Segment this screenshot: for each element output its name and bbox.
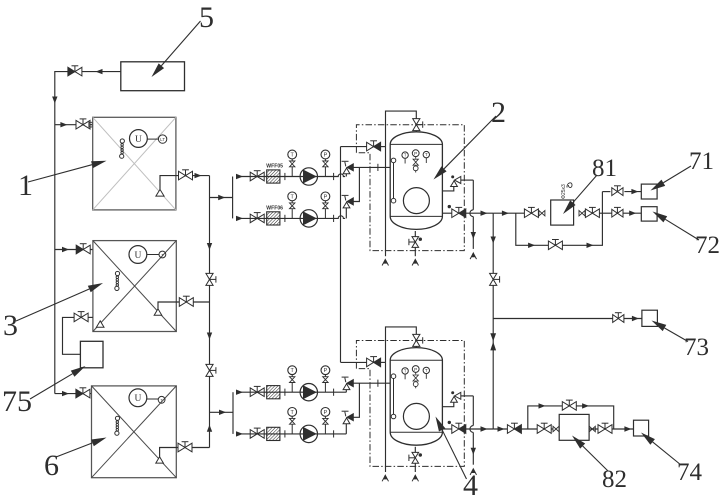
wire drain to vent 2 bbox=[414, 247, 416, 256]
gauge T pump row 1 bbox=[291, 167, 293, 177]
svg-text:U: U bbox=[135, 135, 142, 145]
wire row2 riser to check valve 4B bbox=[345, 424, 347, 434]
filter pump row 1 bbox=[267, 170, 280, 183]
gauge P pump row 1 bbox=[324, 167, 326, 177]
flow arrow up on suction main bottom bbox=[207, 425, 212, 432]
heat meter box 82 bbox=[559, 414, 589, 440]
flow arrow into box3 bbox=[62, 247, 69, 252]
vent below enclosure left 2 bbox=[382, 260, 385, 266]
flange pump row 1 bbox=[284, 173, 286, 180]
check valve before meter 82 bbox=[507, 425, 514, 434]
flow arrow down on supply riser bbox=[52, 97, 57, 104]
flow arrow down distribution main bbox=[491, 237, 496, 244]
valve on expansion-tank line bbox=[68, 67, 75, 76]
wire tank 2 safety tap bbox=[442, 187, 453, 191]
wire after meter 82 bbox=[589, 428, 633, 430]
flow arrow down on suction main middle bbox=[207, 333, 212, 340]
pump P3 bbox=[300, 384, 317, 401]
wire branch to upper pump header bbox=[210, 197, 233, 199]
valve on box75 line bbox=[74, 313, 81, 322]
flange on tank feed 4 bbox=[377, 380, 379, 387]
drain valve tank 2 bbox=[412, 237, 419, 242]
enclosure boundary tank 2 bbox=[356, 125, 464, 251]
box3 diagonal braces bbox=[93, 241, 176, 332]
filter pump row 4 bbox=[267, 427, 280, 440]
wire box1 inlet bbox=[55, 124, 93, 126]
tank 4 gauge 3 bbox=[423, 367, 429, 373]
wire interconnect riser bbox=[340, 147, 342, 363]
drain line below top loop 4 bbox=[385, 362, 387, 472]
svg-text:82: 82 bbox=[602, 466, 627, 493]
label 1 leader bbox=[28, 165, 92, 182]
box6 small gauge bbox=[158, 396, 165, 403]
svg-text:T: T bbox=[404, 153, 407, 158]
valve to user 71 bbox=[612, 188, 618, 196]
tank 2 gauge 1 bbox=[402, 152, 408, 158]
tank 2 gauge 3 bbox=[423, 151, 429, 157]
wire user riser 81 bbox=[601, 192, 603, 214]
wire pump row 4 bbox=[236, 433, 346, 435]
svg-text:P: P bbox=[414, 151, 417, 156]
wire to user 73 bbox=[493, 318, 642, 320]
meter 81 curl bbox=[567, 183, 572, 188]
flow arrow on outlet 2 bbox=[481, 211, 488, 216]
svg-text:P: P bbox=[324, 153, 328, 159]
svg-text:Φ25x3: Φ25x3 bbox=[561, 184, 567, 199]
valve on box6 outlet bbox=[178, 443, 185, 452]
tank box 1 bbox=[93, 117, 176, 210]
flow arrow into pump row 2 bbox=[236, 216, 243, 221]
wire drain to vent 4 bbox=[414, 463, 416, 472]
flow arrow to user 73 bbox=[632, 316, 639, 321]
wire user 71 branch bbox=[602, 191, 610, 193]
svg-text:LT: LT bbox=[160, 137, 165, 142]
union before meter 81 bbox=[539, 211, 542, 216]
box3 drain triangle left bbox=[96, 321, 104, 327]
flow arrow into pump row 1 bbox=[236, 174, 243, 179]
filter pump row 3 bbox=[267, 386, 280, 399]
box6 drain triangle bbox=[156, 457, 164, 463]
tank 2 manhole bbox=[403, 188, 429, 214]
filter pump row 2 bbox=[267, 212, 280, 225]
check valve on tank 2 top loop bbox=[367, 142, 374, 151]
drain line below top loop 2 bbox=[385, 147, 387, 257]
tank 4 vessel shell bbox=[390, 348, 442, 446]
valve on tank 4 top pipe bbox=[413, 334, 420, 340]
vent below enclosure left 4 bbox=[382, 475, 385, 481]
box1 level sensor bbox=[120, 139, 124, 143]
tank 4 manhole bbox=[403, 403, 429, 429]
wire into tank 2 top bbox=[415, 131, 417, 133]
svg-text:74: 74 bbox=[677, 459, 703, 486]
valve after meter 81 bbox=[585, 209, 592, 218]
flange pump row 2 bbox=[284, 215, 286, 222]
label 5 leader bbox=[161, 21, 200, 66]
box1 diagonal brace light bbox=[93, 117, 176, 210]
flange after pump 3 bbox=[333, 389, 335, 396]
wire pump row 1 bbox=[236, 174, 345, 177]
label 82 leader bbox=[583, 446, 608, 471]
valve on suction main lower bbox=[206, 364, 213, 370]
valve to user 72 bbox=[612, 209, 618, 217]
svg-text:WFF06: WFF06 bbox=[266, 205, 283, 211]
flow arrow on upper pump branch bbox=[218, 195, 225, 200]
flange pump row 4 bbox=[284, 430, 286, 437]
wire tank 4 top loop bbox=[381, 361, 386, 363]
union after meter 81 bbox=[579, 211, 582, 216]
flow arrow down vent riser 2 bbox=[471, 232, 476, 239]
gauge P pump row 3 bbox=[324, 383, 326, 393]
svg-text:75: 75 bbox=[2, 385, 32, 418]
wire tank 2 top loop bbox=[381, 146, 386, 148]
flange pump row 3 bbox=[284, 389, 286, 396]
wire suction main vertical bbox=[209, 176, 211, 448]
svg-text:4: 4 bbox=[463, 469, 478, 500]
safety valve tank 4 bbox=[451, 397, 458, 403]
wire check 2A to tank side bbox=[353, 166, 390, 168]
valve to user 73 bbox=[613, 315, 619, 323]
wire pump row 2 bbox=[236, 216, 345, 219]
gauge T pump row 3 bbox=[291, 383, 293, 393]
svg-text:P: P bbox=[414, 367, 417, 372]
svg-text:3: 3 bbox=[3, 309, 18, 342]
tank 4 gauge 2 bbox=[412, 366, 419, 373]
outlet valve tank 2 bbox=[452, 209, 459, 218]
vent at safety riser 4 bbox=[470, 469, 473, 475]
vent below tank 4 drain bbox=[412, 475, 415, 481]
label 72 leader bbox=[665, 219, 699, 240]
wire box3 to box75 bbox=[87, 316, 93, 318]
valve pump row 3 suction bbox=[250, 388, 257, 397]
crossing hop of vent riser over outlet 4 bbox=[470, 426, 473, 433]
flow arrow bypass 82 right bbox=[582, 403, 589, 408]
svg-text:P: P bbox=[324, 410, 328, 416]
svg-text:T: T bbox=[425, 152, 428, 157]
union after meter 82 bbox=[589, 426, 592, 431]
wire outlet to header 2 bbox=[466, 212, 493, 214]
flow arrow before check 82 bbox=[498, 426, 505, 431]
svg-text:71: 71 bbox=[689, 148, 714, 175]
wire main supply riser bbox=[55, 72, 121, 394]
wire safety to vent riser 4 bbox=[461, 395, 474, 397]
flow arrow on bypass 81 right bbox=[587, 243, 594, 248]
gauge T pump row 2 bbox=[291, 209, 293, 219]
label 75 leader bbox=[30, 374, 73, 399]
svg-text:73: 73 bbox=[684, 334, 709, 361]
label 73 leader bbox=[665, 328, 688, 342]
tank 4 relief fitting bbox=[413, 375, 418, 378]
vent at safety riser 2 bbox=[470, 253, 473, 259]
wire box3 outlet bbox=[158, 302, 210, 309]
user box 72 bbox=[641, 207, 657, 221]
box6 level sensor bbox=[115, 416, 119, 420]
flow arrow into box6 bbox=[62, 391, 69, 396]
label 71 leader bbox=[663, 166, 691, 183]
svg-text:T: T bbox=[425, 368, 428, 373]
tank 2 shoulder weld line bbox=[390, 143, 442, 145]
box1 gauge link bbox=[147, 138, 158, 140]
tank 2 sight glass bbox=[391, 158, 396, 163]
valve on bypass 81 bbox=[548, 241, 555, 250]
valve on distribution main bbox=[490, 273, 497, 279]
box6 diagonal braces bbox=[92, 386, 177, 478]
tank 2 gauge 2 bbox=[412, 150, 419, 157]
tank 4 gauge 1 bbox=[402, 368, 408, 374]
box3 level sensor bbox=[115, 271, 119, 275]
valve before meter 81 bbox=[524, 209, 531, 218]
wire box6 inlet bbox=[55, 393, 92, 395]
box1 drain triangle bbox=[156, 189, 164, 196]
box1 small gauge LT bbox=[158, 135, 166, 143]
flow arrow on lower pump branch bbox=[219, 410, 226, 415]
dot at drain valve 4 bbox=[419, 453, 422, 456]
wire tank 4 safety tap bbox=[442, 403, 453, 407]
svg-text:P: P bbox=[324, 194, 328, 200]
svg-text:U: U bbox=[134, 251, 141, 261]
box3 gauge link bbox=[147, 254, 159, 256]
heat meter box 81 bbox=[551, 200, 574, 225]
flow arrow to user 71 bbox=[631, 189, 638, 194]
svg-text:U: U bbox=[134, 394, 141, 404]
wire meter 81 bypass bbox=[516, 213, 603, 245]
svg-text:P: P bbox=[324, 368, 328, 374]
wire tank 4 bottom drain bbox=[414, 447, 416, 453]
label 6 leader bbox=[56, 443, 93, 457]
wire to user 72 bbox=[610, 212, 641, 214]
box6 controller circle U bbox=[129, 389, 147, 407]
drain valve tank 4 bbox=[412, 452, 419, 457]
user box 73 bbox=[642, 310, 658, 326]
wire to heat meter 81 bbox=[493, 212, 524, 214]
valve on bypass 82 bbox=[562, 402, 569, 411]
box3 drain triangle right bbox=[154, 309, 162, 315]
dot at drain valve 2 bbox=[419, 238, 422, 241]
svg-text:2: 2 bbox=[491, 96, 506, 129]
check valve 2A angle bbox=[343, 168, 350, 174]
check valve on tank 4 top loop bbox=[367, 358, 374, 367]
tank 2 relief fitting bbox=[413, 159, 418, 162]
valve on box1 outlet bbox=[179, 171, 186, 180]
outlet valve tank 4 bbox=[452, 425, 459, 434]
wire branch to lower pump header bbox=[210, 411, 234, 413]
valve on suction main upper bbox=[206, 273, 213, 279]
user box 74 bbox=[634, 420, 649, 436]
wire meter 82 bypass bbox=[528, 406, 614, 429]
wire check 4B joins feed bbox=[353, 383, 359, 417]
flow arrow into box1 bbox=[60, 122, 67, 127]
flow arrow down on suction main upper bbox=[207, 243, 212, 250]
valve on box3 outlet bbox=[179, 298, 186, 307]
wire check 2B joins feed bbox=[353, 167, 359, 201]
wire upper pump header bbox=[232, 177, 234, 219]
label 4 leader bbox=[442, 430, 466, 479]
flow arrow into pump row 3 bbox=[236, 390, 243, 395]
wire box6 outlet bbox=[160, 448, 210, 457]
wire tank 2 bottom drain bbox=[414, 231, 416, 237]
tank box 3 bbox=[93, 241, 176, 332]
tank 4 shoulder weld line bbox=[390, 359, 442, 361]
svg-text:81: 81 bbox=[592, 155, 617, 182]
flow arrow after box1 outlet valve bbox=[195, 173, 202, 178]
gauge P pump row 4 bbox=[324, 424, 326, 434]
enclosure boundary tank 4 bbox=[356, 341, 464, 467]
svg-text:WFF05: WFF05 bbox=[266, 164, 283, 170]
flow arrow to left on expansion-tank line bbox=[96, 69, 103, 74]
pump P2 bbox=[300, 210, 317, 227]
flow arrow bypass 82 left bbox=[539, 403, 546, 408]
dosing box 75 bbox=[80, 341, 103, 368]
wire valve to user 71 box bbox=[624, 191, 641, 193]
wire to heat meter 82 bbox=[493, 428, 559, 430]
flange at box1 inlet bbox=[89, 122, 92, 127]
wire tank 2 outlet bbox=[442, 212, 451, 214]
box1 controller circle U bbox=[130, 130, 148, 148]
svg-text:72: 72 bbox=[695, 232, 719, 259]
tank 4 sight glass bbox=[391, 374, 396, 379]
flow arrow to user 74 bbox=[624, 426, 631, 431]
wire into tank 4 top bbox=[415, 346, 417, 348]
valve before meter 82 bbox=[537, 425, 544, 434]
valve pump row 2 suction bbox=[250, 214, 257, 223]
valve pump row 1 suction bbox=[250, 172, 257, 181]
wire distribution main vertical bbox=[492, 213, 494, 429]
user box 71 bbox=[641, 184, 657, 199]
flange on tank feed 2 bbox=[377, 164, 379, 171]
valve after meter 82 bbox=[598, 425, 605, 434]
flow arrow into pump row 4 bbox=[236, 431, 243, 436]
tank 2 vessel shell bbox=[390, 132, 442, 230]
check valve 4A angle bbox=[343, 384, 350, 390]
expansion tank box 5 bbox=[121, 62, 185, 91]
dot on outlet 4 bbox=[448, 421, 451, 424]
flow arrow on outlet 4 bbox=[481, 426, 488, 431]
label 2 leader bbox=[444, 116, 496, 169]
flow arrow to user 72 bbox=[629, 211, 636, 216]
wire pump row 3 bbox=[236, 391, 346, 393]
label 74 leader bbox=[653, 442, 681, 465]
union before meter 82 bbox=[553, 426, 556, 431]
gauge P pump row 2 bbox=[324, 209, 326, 219]
flange after pump 2 bbox=[333, 215, 335, 222]
valve pump row 4 suction bbox=[250, 430, 257, 439]
box6 gauge link bbox=[147, 398, 158, 400]
flow arrow before meter 81 bbox=[502, 211, 509, 216]
flow arrow down vent riser 4 bbox=[471, 448, 476, 455]
svg-text:T: T bbox=[404, 369, 407, 374]
check valve 2B angle bbox=[343, 202, 350, 208]
dot on outlet 2 bbox=[448, 205, 451, 208]
wire safety to vent riser 2 bbox=[461, 179, 474, 181]
wire box3 inlet bbox=[55, 249, 93, 251]
gauge T pump row 4 bbox=[291, 424, 293, 434]
wire meter 81 to users bbox=[599, 212, 610, 214]
wire row2 riser to check valve 2B bbox=[345, 208, 347, 219]
crossing hop of vent riser over outlet 2 bbox=[470, 210, 473, 217]
wire tank 4 outlet bbox=[442, 428, 451, 430]
flange after pump 4 bbox=[333, 430, 335, 437]
flow arrow on bypass 81 left bbox=[528, 243, 535, 248]
svg-text:6: 6 bbox=[44, 449, 59, 482]
wire box1 outlet bbox=[160, 176, 210, 190]
flange after pump 1 bbox=[333, 173, 335, 180]
wire row riser to check valve 2A bbox=[345, 174, 347, 177]
wire row riser to check valve 4A bbox=[345, 390, 347, 393]
label 3 leader bbox=[16, 289, 89, 321]
converging arrows on distribution main bbox=[490, 333, 496, 341]
wire tank 4 top-loop horizontal bbox=[341, 361, 367, 363]
wire tank 2 top-loop horizontal bbox=[341, 146, 367, 148]
box3 small gauge bbox=[159, 251, 166, 258]
svg-text:5: 5 bbox=[199, 1, 214, 34]
check valve 4B angle bbox=[343, 418, 350, 424]
valve on tank 2 top pipe bbox=[413, 119, 420, 125]
valve on box1 inlet bbox=[76, 120, 83, 129]
vent below tank 2 drain bbox=[412, 260, 415, 266]
wire outlet to header 4 bbox=[466, 428, 493, 430]
valve on box3 inlet bbox=[76, 245, 83, 254]
label 81 leader bbox=[573, 175, 597, 203]
valve on box6 inlet bbox=[76, 389, 83, 398]
wire lower pump header bbox=[232, 392, 234, 434]
safety valve tank 2 bbox=[451, 181, 458, 187]
pump P1 bbox=[300, 168, 317, 185]
tank box 6 bbox=[92, 386, 177, 478]
svg-text:1: 1 bbox=[18, 169, 33, 202]
box3 controller circle U bbox=[129, 246, 147, 264]
pump P4 bbox=[300, 425, 317, 442]
wire check 4A to tank side bbox=[353, 382, 390, 384]
